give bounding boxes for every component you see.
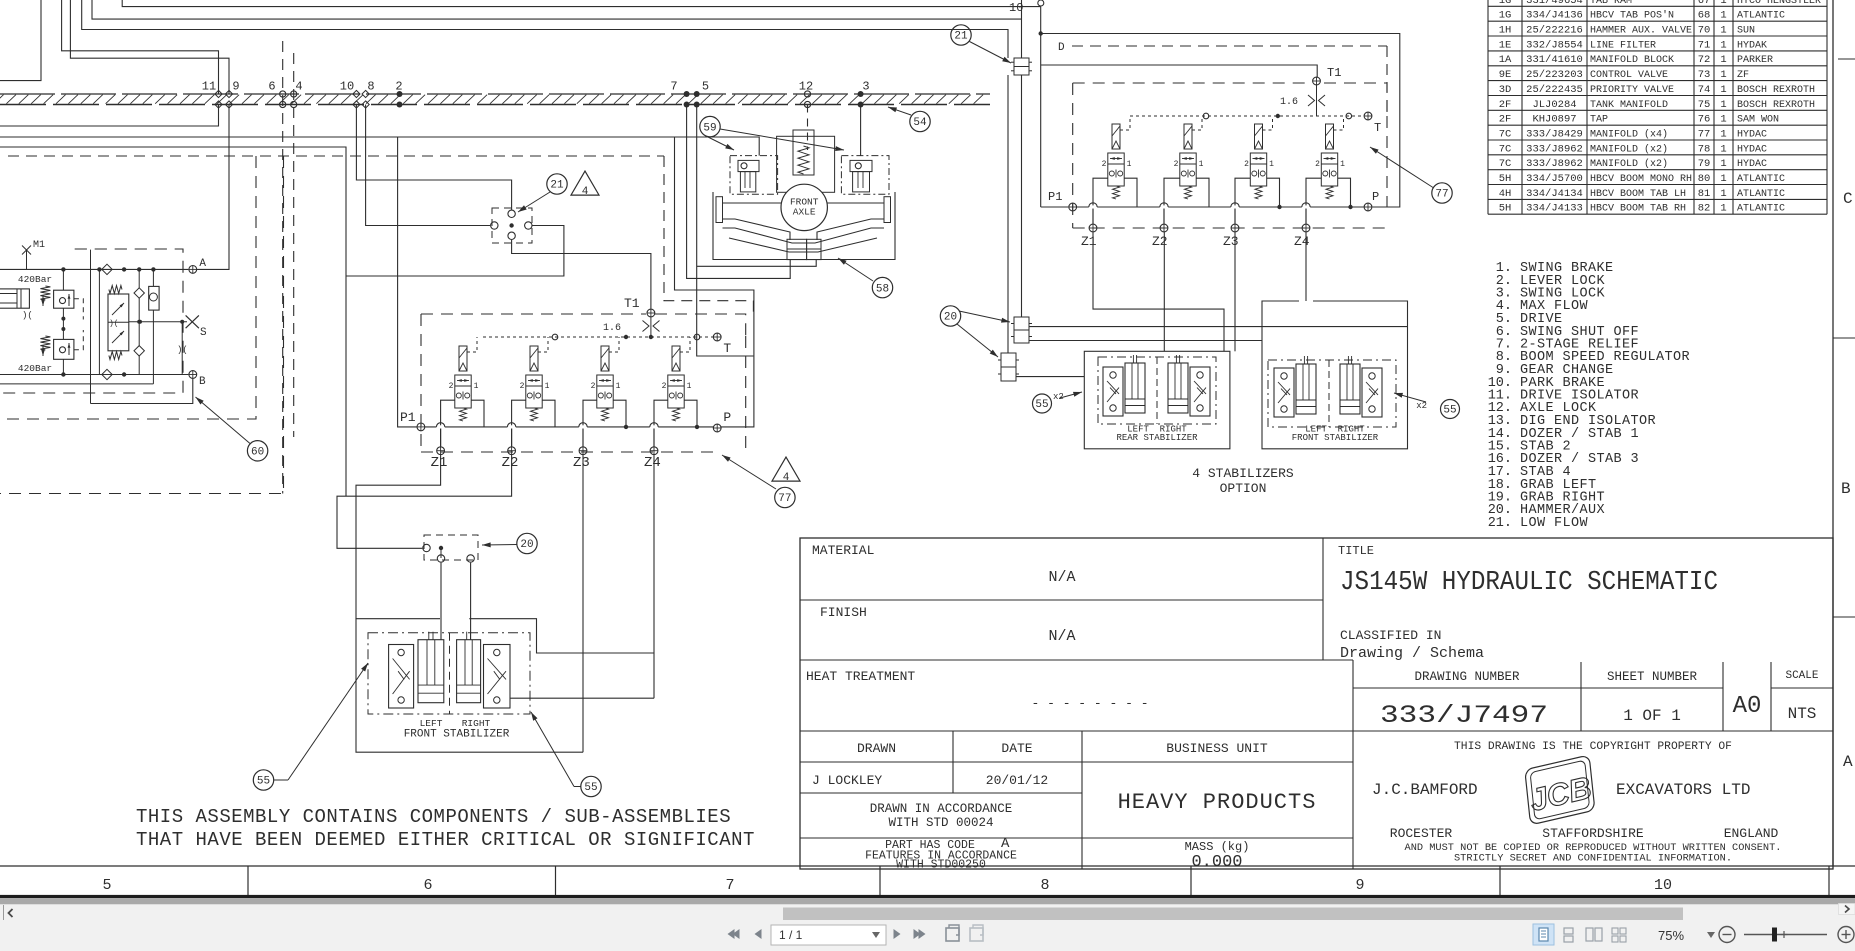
wire hops middle supply rail (436, 423, 658, 447)
orifice 1.6 right (1280, 95, 1325, 108)
svg-text:MANIFOLD (x2): MANIFOLD (x2) (1590, 158, 1668, 170)
svg-text:- - - - - - - -: - - - - - - - - (1031, 696, 1148, 711)
svg-text:9: 9 (1355, 877, 1364, 894)
check valve block upper (54, 290, 74, 308)
bulkhead pass-through 6 (268, 80, 285, 108)
svg-text:54: 54 (913, 117, 927, 129)
svg-text:25/222435: 25/222435 (1526, 84, 1583, 96)
svg-text:1: 1 (1720, 10, 1726, 22)
callout 20 right (940, 306, 960, 326)
svg-text:TITLE: TITLE (1338, 544, 1374, 558)
port Z3 right (1223, 224, 1239, 249)
svg-text:80: 80 (1698, 173, 1711, 185)
label SCALE (1785, 670, 1818, 682)
svg-text:CONTROL VALVE: CONTROL VALVE (1590, 70, 1668, 81)
note drawn accordance (870, 802, 1013, 830)
front axle assembly (713, 130, 895, 260)
pilot dashed D rail (1072, 46, 1387, 112)
svg-text:Z1: Z1 (431, 455, 448, 471)
svg-text:1: 1 (1720, 114, 1726, 126)
top connector circle (1038, 0, 1044, 6)
bulkhead fitting low (item 20b) (998, 353, 1019, 381)
label BUSINESS UNIT (1166, 741, 1268, 756)
wire axle bracket right stub (697, 260, 817, 267)
svg-text:10: 10 (340, 80, 354, 94)
stabilizer center dashed divider (449, 633, 451, 714)
title block frame (800, 538, 1833, 869)
rear stabilizer outer box (1084, 351, 1230, 449)
bulkhead fitting upper (item 21) (1011, 58, 1032, 75)
dashed box lower-left inner (0, 249, 183, 393)
svg-text:1: 1 (1720, 173, 1726, 185)
svg-text:4: 4 (783, 472, 790, 484)
svg-text:HAMMER AUX. VALVE: HAMMER AUX. VALVE (1590, 26, 1692, 37)
front stabilizer supply loop bottom-left (356, 619, 654, 753)
svg-text:Z4: Z4 (1294, 234, 1310, 249)
svg-text:Z3: Z3 (1223, 234, 1239, 249)
svg-text:P1: P1 (400, 410, 416, 425)
svg-text:DRAWING NUMBER: DRAWING NUMBER (1414, 670, 1520, 684)
manifold x4 dashed enclosure right (item 77b) (1073, 83, 1387, 228)
junction block (item 20) middle (423, 535, 478, 562)
label 4 stabilizers option (1192, 466, 1294, 496)
svg-text:OPTION: OPTION (1220, 481, 1267, 496)
callout 21 middle (547, 174, 567, 194)
svg-text:334/J5700: 334/J5700 (1526, 173, 1583, 185)
svg-text:2: 2 (1174, 160, 1179, 169)
svg-text:7C: 7C (1499, 129, 1512, 141)
pilot dashed elbow to manifold (585, 156, 753, 313)
pilot dashed riser 12 (807, 105, 809, 151)
svg-text:TANK MANIFOLD: TANK MANIFOLD (1590, 100, 1668, 111)
svg-text:10: 10 (1654, 877, 1672, 894)
wire B return (91, 250, 193, 404)
port P1 middle (400, 410, 425, 431)
label front stab right (1292, 425, 1379, 444)
port P middle (713, 410, 731, 432)
zone tick C/B/A (1833, 59, 1855, 617)
svg-text:4H: 4H (1499, 188, 1512, 200)
wire riser x1021 (1021, 0, 1023, 58)
callout 77 middle (775, 487, 795, 507)
leader 60 (196, 397, 251, 444)
svg-text:HBCV BOOM MONO RH: HBCV BOOM MONO RH (1590, 174, 1692, 185)
svg-text:Z1: Z1 (1081, 234, 1097, 249)
svg-text:J.C.BAMFORD: J.C.BAMFORD (1372, 781, 1478, 799)
svg-text:76: 76 (1698, 114, 1711, 126)
bulkhead fitting mid (item 20a) (1011, 317, 1032, 343)
legend solenoid key list (1488, 261, 1690, 531)
note consent (1405, 842, 1782, 854)
svg-text:HYCO HENGSTLER: HYCO HENGSTLER (1737, 0, 1821, 7)
port Z4 middle (644, 447, 661, 471)
svg-text:1: 1 (545, 382, 550, 391)
value sheet size A0 (1733, 693, 1762, 720)
wire junction20 to stab L (440, 563, 442, 640)
svg-text:BOSCH REXROTH: BOSCH REXROTH (1737, 100, 1815, 111)
viewer toolbar (728, 924, 1855, 945)
value title JS145W (1340, 568, 1718, 598)
svg-text:1: 1 (1269, 160, 1274, 169)
leader 20 right b (957, 324, 998, 357)
stabilizer cyl valve right (484, 645, 511, 709)
leader 20 middle (482, 542, 517, 547)
label wire 10 top (1009, 1, 1023, 15)
svg-text:HEAVY PRODUCTS: HEAVY PRODUCTS (1118, 790, 1317, 815)
value HEAVY PRODUCTS (1118, 790, 1317, 815)
cylinder left edge (0, 289, 33, 321)
port Z2 middle (502, 447, 519, 471)
svg-text:72: 72 (1698, 54, 1711, 66)
pilot dotted bus right (1130, 113, 1363, 119)
wire 10 to junction block (356, 105, 511, 210)
callout 20 middle (517, 533, 537, 553)
label rear stab (1116, 425, 1198, 444)
svg-text:3: 3 (862, 80, 869, 94)
ruler zone strip (0, 866, 1855, 895)
label EXCAVATORS LTD (1616, 781, 1750, 799)
svg-text:HYDAC: HYDAC (1737, 130, 1767, 141)
svg-text:CLASSIFIED IN: CLASSIFIED IN (1340, 628, 1441, 643)
orifice 1.6 middle (603, 317, 660, 337)
callout 55 bottom-left (253, 770, 273, 790)
value classified (1340, 645, 1484, 662)
pilot dashes CB (74, 299, 83, 350)
svg-text:P1: P1 (1048, 190, 1062, 204)
svg-text:82: 82 (1698, 203, 1711, 215)
svg-text:DATE: DATE (1001, 741, 1032, 756)
check diamonds mid column (134, 288, 144, 356)
leader 21 middle (518, 192, 550, 212)
value material N/A (1048, 569, 1075, 586)
pilot dashed riser 4 (293, 53, 295, 437)
svg-text:1: 1 (1720, 129, 1726, 141)
pilot dashed rail y156 (8, 155, 585, 157)
wire 11 to left edge (0, 105, 219, 127)
left cluster A rail (0, 240, 188, 272)
port T right (1364, 112, 1381, 135)
svg-text:1.6: 1.6 (1280, 97, 1298, 108)
svg-text:AXLE: AXLE (793, 207, 816, 218)
svg-text:HEAT TREATMENT: HEAT TREATMENT (806, 669, 915, 684)
svg-text:A: A (1843, 753, 1853, 771)
note critical assembly line2 (136, 829, 755, 851)
svg-text:BOSCH REXROTH: BOSCH REXROTH (1737, 85, 1815, 96)
port P1 right (1048, 190, 1077, 211)
svg-text:20/01/12: 20/01/12 (986, 773, 1048, 788)
leader 20 right a (959, 311, 1010, 323)
callout 58 (872, 277, 892, 297)
svg-text:THIS DRAWING IS THE COPYRIGHT: THIS DRAWING IS THE COPYRIGHT PROPERTY O… (1454, 741, 1732, 753)
svg-text:T: T (1374, 121, 1381, 135)
svg-text:T1: T1 (624, 296, 640, 311)
svg-text:SCALE: SCALE (1785, 670, 1818, 682)
svg-text:2: 2 (449, 382, 454, 391)
svg-text:21: 21 (954, 31, 968, 43)
svg-text:21: 21 (550, 180, 564, 192)
zone letter C (1843, 190, 1853, 208)
wire T1 feed right (1041, 65, 1318, 77)
svg-text:4: 4 (295, 80, 302, 94)
svg-text:1: 1 (1720, 69, 1726, 81)
svg-text:HYDAC: HYDAC (1737, 144, 1767, 155)
value drawing number (1380, 701, 1548, 730)
svg-text:LOW FLOW: LOW FLOW (1520, 516, 1589, 531)
port Z4 right (1294, 224, 1310, 249)
solenoid valve V3 middle manifold (583, 337, 626, 446)
solenoid valve V1 right manifold (1093, 116, 1137, 224)
drawing border right (1832, 0, 1834, 866)
svg-text:MATERIAL: MATERIAL (812, 543, 874, 558)
label FRONT STABILIZER bottom (404, 729, 510, 741)
leader 55 bottom-left (274, 663, 368, 780)
svg-text:ATLANTIC: ATLANTIC (1737, 204, 1785, 215)
svg-text:SUN: SUN (1737, 26, 1755, 37)
svg-text:77: 77 (1698, 129, 1711, 141)
svg-text:1: 1 (1720, 54, 1726, 66)
svg-text:333/J8962: 333/J8962 (1526, 158, 1583, 170)
svg-text:12: 12 (799, 80, 813, 94)
svg-text:5H: 5H (1499, 173, 1512, 185)
solenoid valve V3 right manifold (1235, 116, 1280, 224)
svg-text:S: S (200, 327, 207, 339)
label MATERIAL (812, 543, 874, 558)
svg-text:1A: 1A (1499, 54, 1512, 66)
svg-text:4: 4 (582, 186, 589, 198)
svg-text:60: 60 (251, 447, 264, 459)
svg-text:LEFT: LEFT (420, 718, 443, 729)
svg-text:MASS (kg): MASS (kg) (1185, 840, 1250, 854)
svg-text:1: 1 (1720, 143, 1726, 155)
wire rail y137 to axle lock (0, 137, 759, 156)
value heat treatment dashes (1031, 696, 1148, 711)
svg-text:ZF: ZF (1737, 70, 1749, 81)
port Z1 right (1081, 224, 1097, 249)
svg-text:71: 71 (1698, 39, 1711, 51)
rear stab valve right (1190, 367, 1210, 416)
solenoid valve V2 middle manifold (512, 337, 555, 446)
wire CB column (61, 269, 65, 374)
wire Z3 drop (582, 455, 584, 752)
svg-text:x2: x2 (1416, 401, 1427, 411)
svg-text:T: T (723, 341, 731, 356)
triangle note 4 middle-top (571, 171, 599, 198)
bulkhead pass-through 10 (340, 80, 360, 109)
svg-text:Z2: Z2 (1152, 234, 1168, 249)
svg-text:6: 6 (423, 877, 432, 894)
svg-text:2: 2 (1102, 160, 1107, 169)
svg-text:C: C (1843, 190, 1853, 208)
bulkhead pass-through 5 (694, 80, 709, 108)
svg-text:FRONT STABILIZER: FRONT STABILIZER (404, 729, 510, 741)
manifold x4 dashed enclosure (item 77) (421, 314, 746, 452)
svg-text:D: D (1058, 42, 1065, 54)
svg-text:334/J4133: 334/J4133 (1526, 203, 1583, 215)
svg-text:1: 1 (687, 382, 692, 391)
triangle note 4 middle-bottom (772, 457, 800, 484)
wire Z4 drop (653, 455, 655, 698)
port Z1 middle (431, 447, 448, 471)
svg-text:1: 1 (1720, 25, 1726, 37)
svg-text:55: 55 (257, 776, 270, 788)
svg-text:1: 1 (1720, 99, 1726, 111)
port T middle (713, 333, 731, 356)
svg-text:BUSINESS UNIT: BUSINESS UNIT (1166, 741, 1268, 756)
svg-text:EXCAVATORS LTD: EXCAVATORS LTD (1616, 781, 1750, 799)
svg-text:25/222216: 25/222216 (1526, 25, 1583, 37)
wire fittings drop R (1021, 75, 1023, 317)
wire lower return rail (0, 383, 153, 385)
wire junction to T1 rail (512, 240, 651, 309)
relief valve 420Bar upper (18, 274, 52, 306)
svg-text:STRICTLY SECRET AND CONFIDENTI: STRICTLY SECRET AND CONFIDENTIAL INFORMA… (1454, 853, 1732, 865)
wire fittings drop L (1007, 75, 1009, 353)
wire Z2 right drop (1163, 232, 1165, 351)
svg-text:)(: )( (177, 345, 188, 355)
svg-text:1G: 1G (1499, 10, 1512, 22)
note copyright (1454, 741, 1732, 753)
wire mid column (98, 269, 100, 374)
bulkhead pass-through 12 (799, 80, 813, 108)
svg-text:79: 79 (1698, 158, 1711, 170)
svg-text:8: 8 (367, 80, 374, 94)
relief valve 420Bar lower (18, 336, 52, 374)
svg-text:JS145W HYDRAULIC SCHEMATIC: JS145W HYDRAULIC SCHEMATIC (1340, 568, 1718, 598)
wire Z2 drop (337, 455, 512, 548)
svg-text:SHEET NUMBER: SHEET NUMBER (1607, 670, 1698, 684)
svg-text:DRAWN: DRAWN (857, 741, 896, 756)
svg-text:P: P (723, 410, 731, 425)
wire junction20 to stab R (470, 563, 472, 640)
value sheet number (1623, 707, 1681, 725)
pilot dotted bus middle (483, 334, 713, 340)
wire hose-burst feed right (D rail) (1039, 7, 1400, 207)
callout 59 (700, 116, 720, 136)
front stab dash-dot box right (1268, 360, 1396, 427)
svg-text:J LOCKLEY: J LOCKLEY (812, 773, 882, 788)
wire orifice column (177, 322, 188, 375)
svg-text:4 STABILIZERS: 4 STABILIZERS (1192, 466, 1294, 481)
svg-text:FINISH: FINISH (820, 605, 867, 620)
svg-text:59: 59 (703, 122, 716, 134)
leader 55 rear (1060, 392, 1082, 398)
port T1 right (1313, 66, 1342, 116)
svg-text:A0: A0 (1733, 693, 1762, 720)
svg-text:2: 2 (662, 382, 667, 391)
label CLASSIFIED IN (1340, 628, 1441, 643)
svg-text:PRIORITY VALVE: PRIORITY VALVE (1590, 85, 1674, 96)
callout 55 bottom-right (581, 776, 601, 796)
svg-text:STAFFORDSHIRE: STAFFORDSHIRE (1542, 826, 1644, 841)
svg-text:1: 1 (474, 382, 479, 391)
stabilizer cyl valve left (389, 645, 414, 709)
svg-text:333/J7497: 333/J7497 (1380, 701, 1548, 730)
svg-text:7C: 7C (1499, 143, 1512, 155)
svg-text:HBCV BOOM TAB RH: HBCV BOOM TAB RH (1590, 204, 1686, 215)
svg-text:3D: 3D (1499, 84, 1512, 96)
solenoid valve V1 middle manifold (441, 337, 484, 446)
wire P1-P supply rail right (1077, 205, 1364, 209)
svg-text:333/J8429: 333/J8429 (1526, 129, 1583, 141)
svg-text:P: P (1372, 190, 1379, 204)
svg-text:77: 77 (1435, 189, 1448, 201)
note secret (1454, 853, 1732, 865)
svg-text:LINE FILTER: LINE FILTER (1590, 40, 1656, 51)
svg-text:420Bar: 420Bar (18, 274, 52, 285)
svg-text:9: 9 (232, 80, 239, 94)
svg-text:ATLANTIC: ATLANTIC (1737, 11, 1785, 22)
port Z3 middle (573, 447, 590, 471)
wire check column (137, 269, 141, 374)
svg-text:2: 2 (591, 382, 596, 391)
svg-text:7C: 7C (1499, 158, 1512, 170)
note critical assembly line1 (136, 806, 731, 828)
wire P1 feed (398, 137, 417, 427)
svg-text:2: 2 (520, 382, 525, 391)
svg-text:NTS: NTS (1788, 705, 1817, 723)
svg-text:2: 2 (1244, 160, 1249, 169)
svg-text:11: 11 (202, 80, 216, 94)
port Z2 right (1152, 224, 1168, 249)
svg-text:21.: 21. (1488, 516, 1512, 531)
bulkhead pass-through 9 (225, 80, 239, 109)
svg-text:332/J8554: 332/J8554 (1526, 39, 1583, 51)
label SHEET NUMBER (1607, 670, 1698, 684)
svg-text:331/41610: 331/41610 (1526, 54, 1583, 66)
wire 3 to axle lock RH (860, 105, 862, 156)
wire stab supply from Z4 (512, 697, 654, 699)
bulkhead pass-through 4 (291, 80, 303, 108)
svg-text:75%: 75% (1658, 928, 1684, 943)
rear stab cylinder left (1125, 355, 1145, 413)
svg-text:55: 55 (1035, 399, 1048, 411)
svg-text:2F: 2F (1499, 99, 1512, 111)
svg-text:PARKER: PARKER (1737, 55, 1773, 66)
label DRAWN (857, 741, 896, 756)
left cluster B rail (0, 372, 188, 376)
callout 54 (910, 111, 930, 131)
viewer background (0, 895, 1855, 951)
value finish N/A (1048, 628, 1075, 645)
front stabilizer outer box right (1262, 301, 1408, 449)
wire Z4 right drop (1305, 232, 1307, 301)
svg-text:1: 1 (1720, 0, 1726, 7)
wire stab right port (510, 697, 512, 699)
svg-text:HBCV BOOM TAB LH: HBCV BOOM TAB LH (1590, 189, 1686, 200)
svg-text:HYDAK: HYDAK (1737, 40, 1767, 51)
svg-text:81: 81 (1698, 188, 1711, 200)
leader 77 right (1370, 147, 1433, 188)
JCB logo (1518, 755, 1601, 825)
svg-text:77: 77 (778, 493, 791, 505)
wire 9 to port A (197, 105, 230, 270)
leader 59 left (706, 136, 734, 150)
svg-text:7: 7 (670, 80, 677, 94)
pilot dashed riser 6 (282, 41, 284, 494)
svg-text:5H: 5H (1499, 203, 1512, 215)
svg-text:0.000: 0.000 (1191, 853, 1242, 872)
svg-text:TAP: TAP (1590, 115, 1608, 126)
port P right (1364, 190, 1379, 211)
wire 5 to manifold T rail (697, 105, 754, 357)
svg-text:M1: M1 (33, 240, 45, 251)
svg-text:55: 55 (584, 782, 597, 794)
svg-text:75: 75 (1698, 99, 1711, 111)
bulkhead / chassis hatched band (0, 94, 990, 105)
wire hops right supply rail (1089, 203, 1310, 224)
svg-text:1G: 1G (1499, 0, 1512, 7)
bulkhead pass-through 2 (395, 80, 402, 108)
